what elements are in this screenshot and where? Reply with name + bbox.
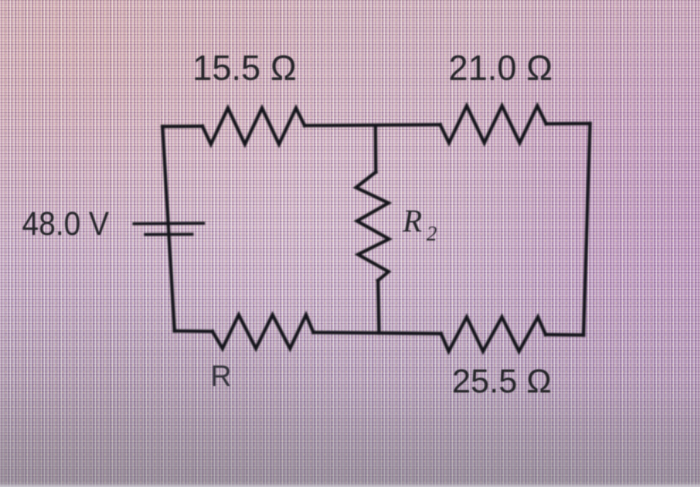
svg-text:15.5 Ω: 15.5 Ω — [193, 49, 297, 88]
svg-text:2: 2 — [427, 222, 438, 246]
wire top-middle segment — [305, 123, 441, 127]
resistor R4 25.5 ohm (bottom-right zigzag) — [441, 317, 546, 351]
svg-text:R: R — [211, 360, 232, 393]
wire bottom-left segment — [175, 329, 213, 333]
wire middle branch bottom — [378, 281, 379, 334]
resistor R1 15.5 ohm (top-left zigzag) — [202, 108, 304, 144]
resistor R3 21.0 ohm (top-right zigzag) — [440, 106, 546, 143]
svg-text:21.0 Ω: 21.0 Ω — [449, 49, 553, 88]
svg-text:48.0 V: 48.0 V — [22, 206, 110, 243]
wire bottom-middle segment — [313, 332, 441, 333]
wire left edge (through battery) — [163, 127, 175, 332]
resistor R (bottom-left zigzag) — [212, 315, 313, 349]
svg-text:R: R — [402, 203, 422, 238]
wire top-right segment — [546, 122, 590, 126]
wire bottom-right segment — [546, 333, 584, 337]
svg-text:25.5 Ω: 25.5 Ω — [452, 364, 552, 401]
battery V1 plate long — [134, 222, 204, 225]
resistor R2 (middle vertical zigzag) — [356, 172, 389, 281]
wire middle branch top — [374, 125, 378, 172]
wire top-left segment — [163, 124, 203, 128]
wire right edge — [584, 124, 591, 336]
battery V1 plate short — [146, 233, 193, 236]
